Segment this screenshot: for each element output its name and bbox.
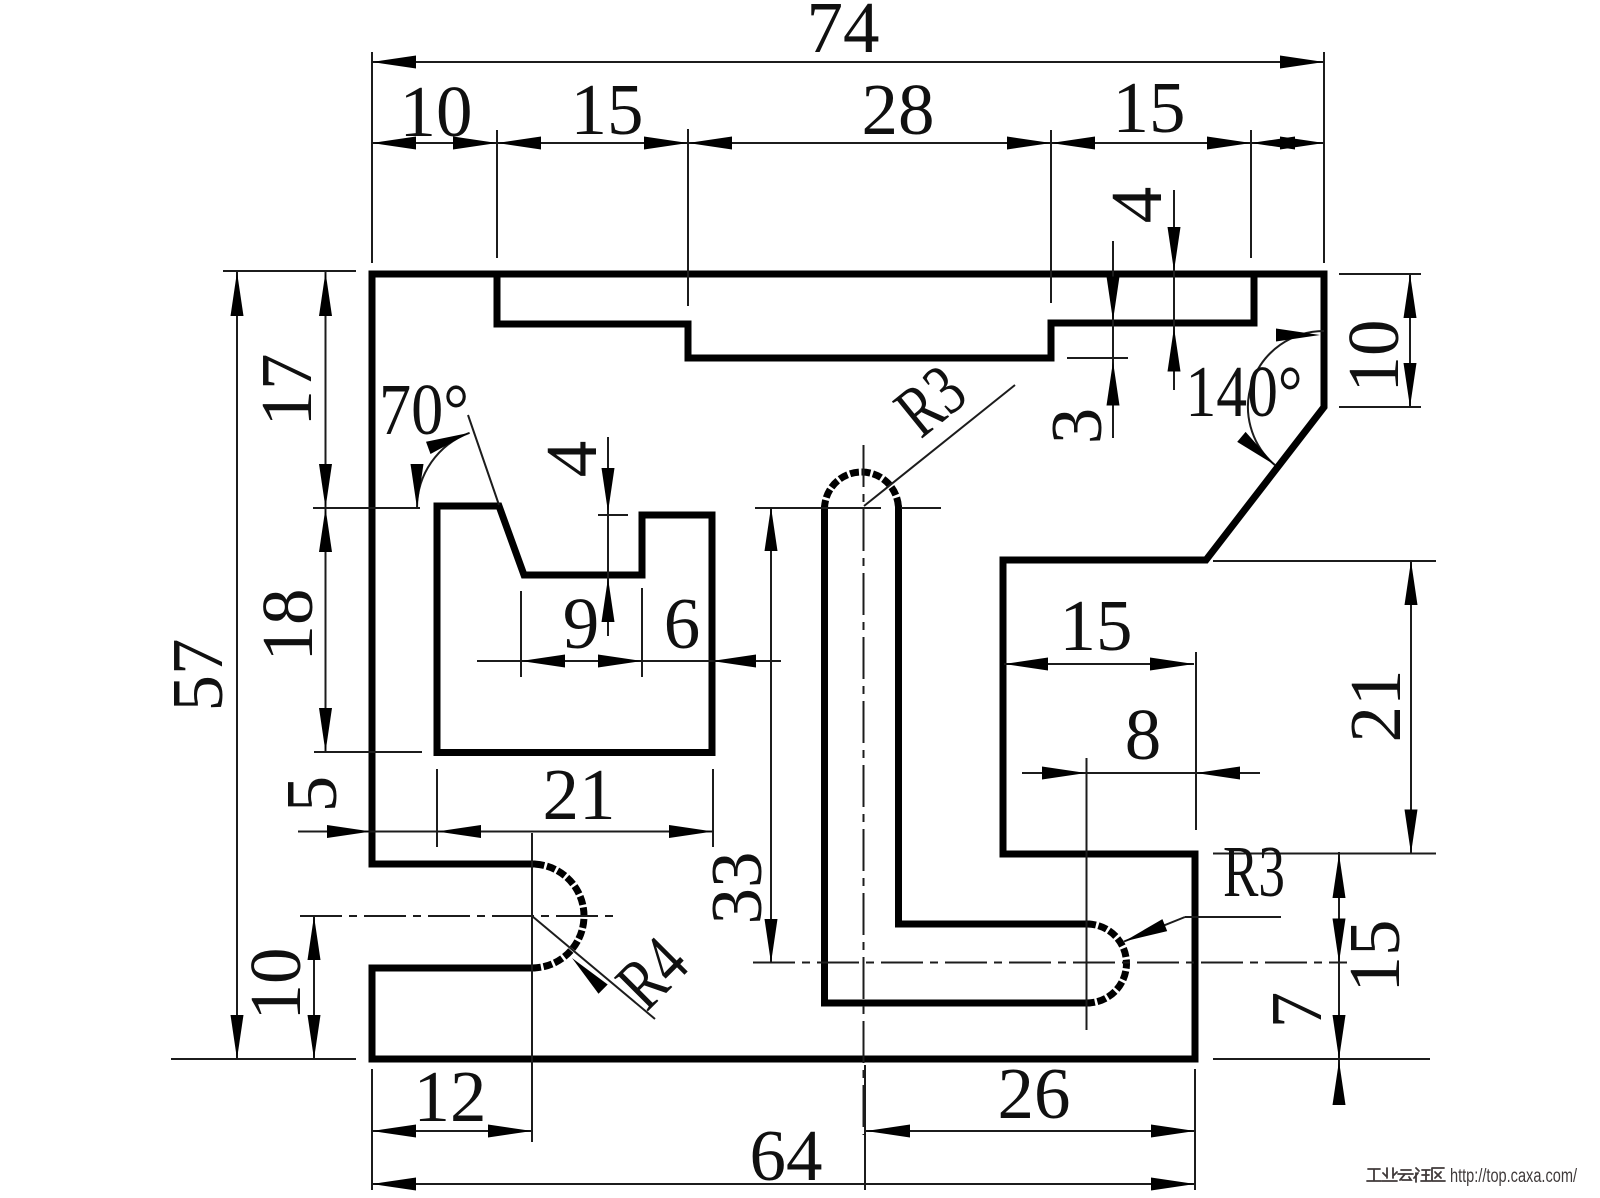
ext through slot arc center y508 xyxy=(755,507,941,509)
ext 3 bottom xyxy=(1067,357,1128,359)
ext 4p y515 xyxy=(598,514,628,516)
slant extension 70deg xyxy=(468,415,499,505)
arrow 9 right xyxy=(598,655,642,668)
ext left bottom y1059 xyxy=(171,1058,356,1060)
arrow 15R bottom xyxy=(1333,1015,1346,1059)
slot top R3 arc xyxy=(825,472,899,509)
arrow 33 bottom xyxy=(765,919,778,963)
leader R3 bottom diagonal xyxy=(1124,917,1185,942)
dim line 4 top-right xyxy=(1173,190,1175,390)
ext bottom x1195 xyxy=(1194,1069,1196,1190)
svg-text:21: 21 xyxy=(543,754,616,835)
arrow 5 left xyxy=(327,825,371,838)
arrow 4tr bottom xyxy=(1168,328,1181,372)
arrow chain 15a right xyxy=(644,137,688,150)
svg-text:5: 5 xyxy=(271,776,352,813)
svg-text:21: 21 xyxy=(1335,670,1416,743)
arrow 21 right xyxy=(669,825,713,838)
ext 10R top xyxy=(1339,273,1421,275)
arrow 70 upper xyxy=(426,433,470,454)
arrow chain end left xyxy=(1251,137,1295,150)
svg-text:17: 17 xyxy=(246,354,327,427)
arrow 64 right xyxy=(1151,1178,1195,1191)
dim line 57 xyxy=(236,272,238,1059)
hanzi yun xyxy=(1398,1170,1413,1180)
arrow 57 bottom xyxy=(231,1015,244,1059)
arrow 26 left xyxy=(866,1125,910,1138)
leader R4 xyxy=(532,916,655,1019)
ext y508 (17/18 + 70deg base) xyxy=(313,507,420,509)
arrow 10R top xyxy=(1404,274,1417,318)
ext x642 xyxy=(641,588,643,677)
arrow 6 right xyxy=(712,655,756,668)
arrow 15n right xyxy=(1150,658,1194,671)
dim line 10 left xyxy=(313,916,315,1059)
svg-text:28: 28 xyxy=(862,69,935,150)
svg-text:10: 10 xyxy=(1333,320,1414,393)
svg-text:9: 9 xyxy=(563,583,600,664)
ext pocket-left below xyxy=(436,769,438,847)
arrow 10R bottom xyxy=(1404,363,1417,407)
arrow 70 lower xyxy=(411,464,424,508)
arrow chain end right xyxy=(1280,137,1324,150)
arrow 15R top xyxy=(1333,854,1346,898)
arrow 21R top xyxy=(1405,561,1418,605)
dim line 15R/7 xyxy=(1338,852,1340,1105)
arrow R3b xyxy=(1124,919,1167,941)
svg-text:64: 64 xyxy=(750,1115,823,1196)
middle slot xyxy=(825,509,1088,1003)
hanzi gong xyxy=(1367,1169,1381,1181)
arrow 9 left xyxy=(521,655,565,668)
svg-text:4: 4 xyxy=(1096,187,1177,224)
ext 10R bottom xyxy=(1339,406,1421,408)
arrow chain 15b left xyxy=(1051,137,1095,150)
hanzi she xyxy=(1414,1168,1431,1182)
hanzi ye xyxy=(1382,1168,1397,1181)
dim line 21 right xyxy=(1410,561,1412,854)
arrow chain 10 right xyxy=(453,137,497,150)
arrow 33 top xyxy=(765,507,778,551)
ext pocket-right below xyxy=(712,769,714,847)
ext y1059 right xyxy=(1213,1058,1430,1060)
middle slot vertical centerline xyxy=(863,445,865,1135)
arrow 7 top xyxy=(1333,919,1346,963)
arrow 26 right xyxy=(1151,1125,1195,1138)
arrow 74 left xyxy=(372,56,416,69)
arc 140deg xyxy=(1248,331,1324,465)
arrow 3 bottom xyxy=(1107,362,1120,406)
ext bottom x372 xyxy=(371,1069,373,1190)
ext y752 pocket bottom xyxy=(314,751,422,753)
ext 74 right xyxy=(1323,52,1325,263)
dim line 9/6 xyxy=(477,660,781,662)
ext chain x1251 xyxy=(1250,130,1252,258)
arrow 18 top xyxy=(319,508,332,552)
dim line chain xyxy=(372,142,1324,144)
svg-text:57: 57 xyxy=(157,639,238,712)
arrow 4p top xyxy=(602,468,615,512)
slot arm horizontal centerline xyxy=(753,962,1347,964)
R4 slot arc xyxy=(532,864,584,968)
arrow chain 28 left xyxy=(688,137,732,150)
arrow chain 28 right xyxy=(1007,137,1051,150)
pocket xyxy=(437,506,712,753)
dim line 15 notch xyxy=(1004,663,1194,665)
arrow R4 xyxy=(572,958,608,994)
dim line 74 xyxy=(372,61,1324,63)
hanzi qu xyxy=(1432,1168,1445,1181)
svg-text:15: 15 xyxy=(1334,920,1415,993)
dim line 33 xyxy=(770,507,772,963)
arrow 17 bottom xyxy=(319,464,332,508)
watermark xyxy=(1367,1168,1445,1182)
ext bottom x532 xyxy=(531,833,533,1142)
arrowheads xyxy=(231,56,1418,1191)
svg-text:6: 6 xyxy=(664,583,701,664)
thin lines: extensions, dimension lines, leaders xyxy=(171,52,1436,1190)
dim line 3 xyxy=(1112,241,1114,438)
arrow 74 right xyxy=(1280,56,1324,69)
svg-text:R3: R3 xyxy=(1223,831,1285,912)
dimension texts xyxy=(157,0,1416,1196)
leader R3 top xyxy=(864,385,1015,506)
arrow 10L top xyxy=(308,916,321,960)
arrow 57 top xyxy=(231,272,244,316)
svg-text:http://top.caxa.com/: http://top.caxa.com/ xyxy=(1450,1166,1578,1187)
dim line 5 / 21 xyxy=(298,831,713,833)
arrow 12 right xyxy=(488,1125,532,1138)
arrow 21R bottom xyxy=(1405,810,1418,854)
dim line 17/18 xyxy=(325,272,327,752)
arrow 4tr top xyxy=(1168,227,1181,271)
ext x1196 notch xyxy=(1195,652,1197,830)
dim line 12 xyxy=(372,1130,532,1132)
arrow 12 left xyxy=(372,1125,416,1138)
arrow 10L bottom xyxy=(308,1015,321,1059)
ext chain x497 xyxy=(496,130,498,258)
arrow 140 top xyxy=(1276,329,1320,342)
arrow 140 bottom xyxy=(1237,432,1275,465)
svg-text:18: 18 xyxy=(247,589,328,662)
svg-text:15: 15 xyxy=(1113,67,1186,148)
ext x1086.5 xyxy=(1086,758,1088,1030)
svg-text:70°: 70° xyxy=(379,369,469,450)
dim line 8 xyxy=(1022,772,1260,774)
svg-text:140°: 140° xyxy=(1186,351,1303,432)
svg-text:10: 10 xyxy=(235,948,316,1021)
svg-text:4: 4 xyxy=(531,441,612,478)
ext chain x1051 xyxy=(1050,130,1052,303)
ext left top xyxy=(223,270,356,272)
arrow 8 right xyxy=(1196,767,1240,780)
svg-text:15: 15 xyxy=(1060,585,1133,666)
leader R3 bottom horizontal xyxy=(1185,916,1281,918)
arrow 4p bottom xyxy=(602,578,615,622)
ext bottom x865 xyxy=(864,1065,866,1190)
center lines (dash-dot) xyxy=(300,445,1347,1135)
ext 74 left xyxy=(371,52,373,263)
dim line 26 xyxy=(866,1130,1195,1132)
arrow 3 top xyxy=(1107,277,1120,321)
svg-text:26: 26 xyxy=(998,1053,1071,1134)
svg-text:74: 74 xyxy=(807,0,880,68)
arrow 18 bottom xyxy=(319,708,332,752)
svg-text:10: 10 xyxy=(400,71,473,152)
top groove xyxy=(497,274,1254,358)
arrow 15n left xyxy=(1004,658,1048,671)
svg-text:7: 7 xyxy=(1256,992,1337,1029)
R4 slot centerline xyxy=(300,915,620,917)
svg-text:12: 12 xyxy=(414,1056,487,1137)
ext y561 xyxy=(1213,560,1436,562)
arrow chain 10 left xyxy=(372,137,416,150)
svg-text:3: 3 xyxy=(1036,408,1117,445)
arc 70deg xyxy=(417,433,470,508)
dim line 64 xyxy=(372,1183,1195,1185)
ext y853.5 xyxy=(1213,853,1436,855)
arrow 17 top xyxy=(319,272,332,316)
arrow 64 left xyxy=(372,1178,416,1191)
svg-text:8: 8 xyxy=(1125,694,1162,775)
ext x521 xyxy=(520,591,522,677)
dim line 10 right xyxy=(1409,274,1411,407)
svg-text:15: 15 xyxy=(571,69,644,150)
arrow 7 bottom xyxy=(1333,1061,1346,1105)
arrow chain 15b right xyxy=(1207,137,1251,150)
slot arm R3 arc xyxy=(1087,924,1127,1003)
ext chain x688 xyxy=(687,129,689,306)
arrow 5 right / 21 left xyxy=(437,825,481,838)
dim line 4 pocket xyxy=(607,437,609,636)
part outline (thick solid) xyxy=(372,274,1324,1059)
svg-text:33: 33 xyxy=(696,852,777,925)
arrow chain 15a left xyxy=(497,137,541,150)
arrow 8 left xyxy=(1042,767,1086,780)
